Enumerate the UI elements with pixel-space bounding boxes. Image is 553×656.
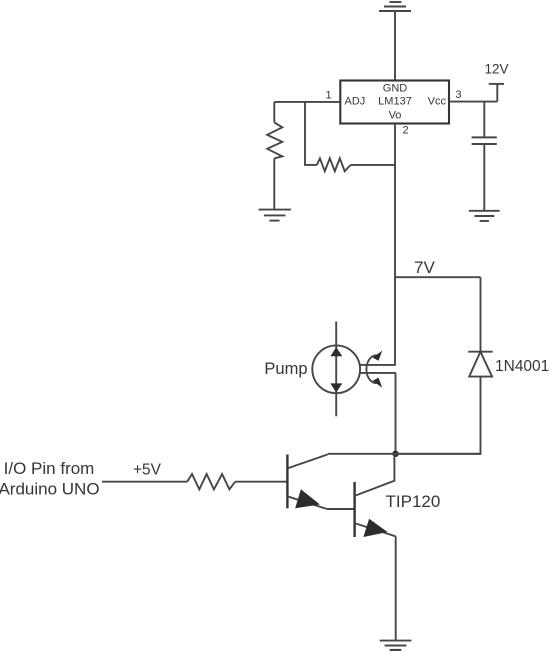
svg-text:Vcc: Vcc [428,96,447,108]
op-amp U1 LM137 regulator body [340,81,449,124]
wire: pump upper port stub [360,364,396,366]
svg-text:I/O Pin from: I/O Pin from [4,459,95,478]
svg-text:+5V: +5V [133,462,162,479]
wire: Q1 emitter to Q2 base [327,508,355,510]
wire: R3 to Q1 base [235,481,287,483]
svg-text:7V: 7V [414,258,435,277]
ground (below R1) [259,210,291,221]
resistor R1 (vertical, ADJ to ground) [267,102,282,210]
wire: Vo pin 2 rail down to pump [394,124,396,365]
wire: Q2 emitter down to ground [395,536,397,640]
capacitor C1 [472,137,497,144]
power rail 12V symbol [489,84,504,102]
transistor Q2 (TIP120 output BJT) [355,454,396,537]
transistor Q1 (TIP120 input BJT) [287,455,327,510]
svg-text:ADJ: ADJ [345,96,366,108]
wire: 7V branch horizontal [395,276,481,278]
svg-text:2: 2 [402,125,408,137]
svg-text:Arduino UNO: Arduino UNO [0,479,100,498]
svg-text:12V: 12V [484,62,508,77]
wire: pump lower port stub [360,372,396,374]
svg-text:GND: GND [383,83,408,95]
wire: ADJ pin 1 lead [274,101,340,103]
svg-text:1N4001: 1N4001 [495,358,549,375]
wire: capacitor C1 top lead [483,102,485,138]
ground (below C1) [469,211,500,221]
svg-text:1: 1 [325,90,331,102]
label: I/O Pin from Arduino UNO [0,459,100,498]
wire: right branch down to diode [480,277,482,352]
wire: top ground to U1 GND pin [394,11,396,81]
resistor R3 (base series) [187,474,235,489]
svg-text:TIP120: TIP120 [386,492,441,511]
motor M1 pump symbol [312,322,360,417]
ground (top, inverted) [379,2,411,11]
resistor R2 (horizontal, ADJ network to Vo) [317,158,395,171]
ground (bottom, below Q2) [380,641,412,650]
wire: Vcc pin 3 lead [449,101,497,103]
label: U1 pin texts [325,83,461,137]
wire: collector bus Q1/Q2 to diode branch [328,453,481,455]
wire: junction drop from ADJ lead to R2 [305,102,317,165]
svg-text:Vo: Vo [389,110,402,122]
svg-text:3: 3 [455,89,461,101]
wire: capacitor C1 bottom lead [483,144,485,211]
node junction dot [392,451,398,457]
wire: diode anode down and across to junction [396,377,481,454]
svg-text:Pump: Pump [264,360,307,378]
diode D1 1N4001 [468,352,493,377]
svg-text:LM137: LM137 [378,96,412,108]
wire: base input from Arduino [102,481,187,483]
rotation arrow (curved, at pump ports) [366,351,382,388]
wire: rail pump to junction [395,373,397,454]
